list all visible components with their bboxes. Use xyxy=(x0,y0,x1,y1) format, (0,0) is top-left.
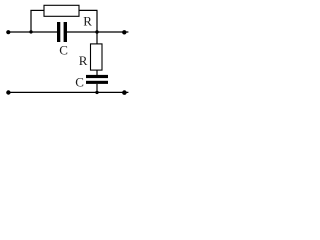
terminal dot top-right xyxy=(122,30,126,34)
svg-text:R: R xyxy=(79,53,88,68)
node B junction dot xyxy=(95,30,98,33)
capacitor C1 right plate xyxy=(64,22,67,42)
svg-text:C: C xyxy=(59,42,68,57)
svg-text:C: C xyxy=(75,75,84,90)
wire top main left segment xyxy=(7,31,58,33)
svg-text:R: R xyxy=(83,14,92,29)
wire capacitor C2 to bottom rail xyxy=(96,84,98,93)
label R1 value R xyxy=(83,14,92,29)
capacitor C2 top plate xyxy=(86,75,108,78)
label C2 value C xyxy=(75,75,84,90)
wire resistor R2 to capacitor C2 xyxy=(96,70,98,75)
wire left branch vertical xyxy=(30,10,32,32)
wire right vertical xyxy=(96,10,98,44)
terminal dot bottom-right xyxy=(122,90,127,95)
terminal dot bottom-left xyxy=(6,90,10,94)
wire resistor R1 to right corner xyxy=(79,9,98,11)
wire bottom rail xyxy=(7,91,128,93)
label R2 value R xyxy=(79,53,88,68)
node A junction dot xyxy=(29,30,32,33)
resistor R2 xyxy=(91,44,103,70)
wire branch top horizontal xyxy=(30,9,44,11)
capacitor C2 bottom plate xyxy=(86,81,108,84)
node C junction dot xyxy=(95,91,98,94)
label C1 value C xyxy=(59,42,68,57)
resistor R1 xyxy=(44,5,79,16)
terminal dot top-left xyxy=(6,30,10,34)
wire top main right segment xyxy=(67,31,129,33)
capacitor C1 left plate xyxy=(57,22,60,42)
